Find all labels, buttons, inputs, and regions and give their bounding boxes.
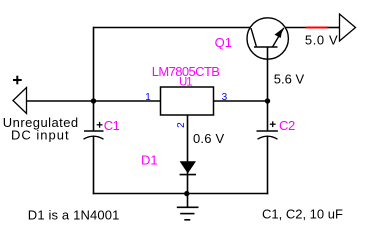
wire red highlighted segment [306, 27, 328, 29]
label D1 [141, 153, 158, 168]
svg-text:5.0 V: 5.0 V [305, 33, 338, 48]
output arrow terminal [340, 14, 356, 41]
svg-text:D1 is a 1N4001: D1 is a 1N4001 [28, 208, 120, 223]
pin number 2 [176, 122, 187, 128]
wire input to node A [27, 100, 94, 102]
wire node A to C1 [93, 101, 95, 131]
label LM7805CTB [152, 64, 220, 79]
svg-text:C1, C2, 10 uF: C1, C2, 10 uF [262, 207, 343, 222]
svg-text:2: 2 [176, 122, 187, 128]
svg-text:Q1: Q1 [215, 35, 232, 50]
wire to output arrow [328, 27, 340, 29]
node B junction dot [265, 98, 270, 103]
diode D1 [180, 161, 196, 174]
svg-text:DC input: DC input [11, 128, 70, 143]
wire U1 pin 3 to node B [214, 100, 268, 102]
input plus polarity mark [13, 76, 22, 85]
label C1 [104, 118, 120, 133]
label Q1 [215, 35, 232, 50]
wire C2 to bottom rail [267, 136, 269, 194]
wire bottom rail [93, 193, 269, 195]
wire top rail right of Q1 [285, 27, 306, 29]
pin number 1 [145, 92, 151, 103]
wire C1 to bottom rail [93, 136, 95, 194]
capacitor C2 [257, 121, 278, 139]
pin number 3 [222, 92, 228, 103]
label Unregulated DC input [3, 115, 79, 143]
transistor Q1 [247, 18, 288, 59]
wire node B to C2 [267, 101, 269, 131]
label C1, C2, 10 uF [262, 207, 343, 222]
wire top rail left segment [94, 27, 251, 29]
capacitor C1 [84, 122, 104, 139]
svg-text:D1: D1 [141, 153, 158, 168]
label 5.0 V [305, 33, 338, 48]
label 5.6 V [274, 72, 305, 87]
wire U1 pin 2 through D1 to bottom rail [187, 115, 189, 194]
svg-text:U1: U1 [179, 76, 192, 88]
wire Q1 base down to node B [267, 47, 269, 101]
svg-text:3: 3 [222, 92, 228, 103]
op-amp U1 regulator box LM7805CTB [161, 87, 214, 115]
svg-text:1: 1 [145, 92, 151, 103]
wire left vertical from top rail to input node [93, 27, 95, 101]
svg-text:C1: C1 [104, 118, 120, 133]
svg-text:5.6 V: 5.6 V [274, 72, 305, 87]
label 0.6 V [193, 131, 224, 146]
ground [177, 194, 199, 220]
label D1 is a 1N4001 [28, 208, 120, 223]
label C2 [279, 118, 295, 133]
node A junction dot [91, 98, 96, 103]
svg-text:C2: C2 [279, 118, 295, 133]
input arrow terminal [13, 88, 27, 114]
ground node junction dot [184, 191, 189, 196]
label U1 [179, 76, 192, 88]
svg-text:0.6 V: 0.6 V [193, 131, 224, 146]
wire node A to U1 pin 1 [94, 100, 161, 102]
